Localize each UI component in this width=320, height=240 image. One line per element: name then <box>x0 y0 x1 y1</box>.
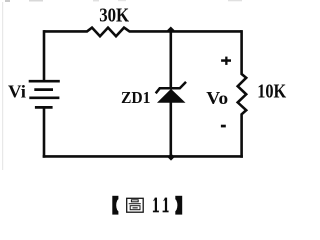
svg-text:Vi: Vi <box>8 81 26 101</box>
svg-text:30K: 30K <box>99 6 130 27</box>
svg-text:Vo: Vo <box>206 88 228 108</box>
svg-text:10K: 10K <box>257 82 287 103</box>
svg-text:ZD1: ZD1 <box>121 88 151 107</box>
